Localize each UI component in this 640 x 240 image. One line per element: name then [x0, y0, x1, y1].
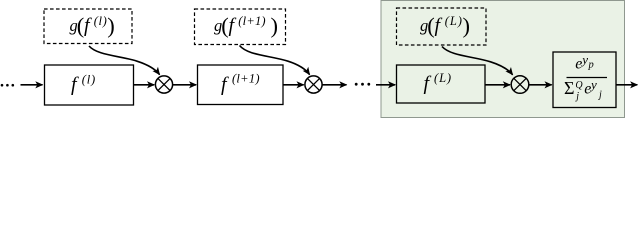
- label f(l+1): [221, 72, 260, 96]
- label f(L): [424, 71, 452, 95]
- svg-text:(l+1): (l+1): [238, 14, 265, 28]
- label g(f(L)): [420, 13, 470, 38]
- svg-text:): ): [107, 13, 115, 38]
- label g(f(l+1)): [214, 13, 278, 38]
- label softmax denominator sum: [564, 77, 602, 102]
- dashed box g(f(L)): [397, 8, 487, 45]
- output wire arrow: [616, 84, 637, 86]
- multiply node 3: [511, 76, 529, 94]
- svg-text:(l): (l): [94, 14, 108, 28]
- svg-text:f: f: [221, 74, 229, 96]
- svg-text:Σ: Σ: [564, 78, 574, 98]
- svg-text:(l): (l): [82, 72, 96, 86]
- svg-text:f: f: [229, 15, 237, 37]
- multiply node 2: [305, 76, 322, 93]
- wire f(l+1) -> multiply node 2: [283, 84, 304, 86]
- box f(L): [397, 65, 486, 103]
- box softmax: [553, 52, 616, 108]
- curved arrow g(f(l+1)) -> multiply node 2: [240, 46, 310, 75]
- svg-text:y: y: [580, 52, 588, 67]
- wire f(L) -> multiply node 3: [485, 84, 510, 86]
- box f(l+1): [198, 65, 284, 105]
- wire multiply node 2 -> middle ellipsis: [322, 84, 346, 86]
- node dots: middle ellipsis: [355, 83, 370, 86]
- fraction bar: [567, 77, 608, 79]
- curved arrow g(f(L)) -> multiply node 3: [442, 47, 513, 75]
- wire ellipsis -> f(L): [376, 84, 395, 86]
- svg-text:f: f: [71, 74, 79, 96]
- wire f(l) -> multiply node 1: [134, 84, 155, 86]
- wire multiply node 1 -> f(l+1): [173, 84, 197, 86]
- label softmax numerator e^yp: [575, 52, 593, 72]
- svg-text:p: p: [588, 60, 594, 71]
- dashed box g(f(l+1)): [195, 9, 286, 45]
- svg-text:(l+1): (l+1): [232, 72, 260, 86]
- label g(f(l)): [70, 13, 115, 38]
- svg-text:y: y: [589, 77, 597, 92]
- multiply node 1: [155, 76, 172, 93]
- curved arrow g(f(l)) -> multiply node 1: [89, 46, 160, 75]
- svg-text:f: f: [84, 15, 92, 37]
- svg-text:): ): [271, 13, 279, 38]
- wire arrow into f(l): [21, 84, 43, 86]
- svg-text:): ): [463, 13, 471, 38]
- node dots: leading ellipsis: [1, 84, 14, 87]
- svg-text:Q: Q: [575, 80, 583, 91]
- green panel (last-layer group background): [381, 1, 625, 118]
- svg-text:(L): (L): [445, 14, 463, 28]
- label f(l): [71, 72, 96, 95]
- dashed box g(f(l)): [44, 9, 132, 44]
- wire multiply node 3 -> softmax box: [529, 84, 552, 86]
- box f(l): [45, 65, 134, 105]
- svg-text:(L): (L): [434, 71, 452, 85]
